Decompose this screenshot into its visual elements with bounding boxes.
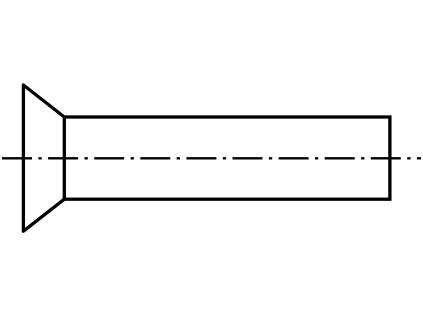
rivet countersunk head outline: [23, 85, 64, 231]
rivet shank (body rectangle): [64, 117, 390, 199]
centerline (dash-dot axis): [2, 157, 421, 159]
